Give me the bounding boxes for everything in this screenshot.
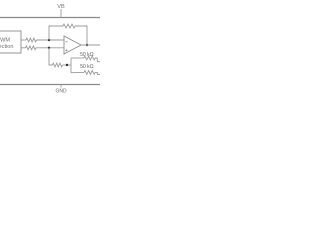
wire R4 exit jog <box>95 58 100 62</box>
wire box to R1 <box>21 39 26 41</box>
wire upper divider branch <box>71 57 84 59</box>
wire feedback to output <box>75 26 87 45</box>
svg-text:PWM: PWM <box>0 37 10 43</box>
resistor Rf feedback <box>63 24 75 28</box>
wire R5 exit jog <box>95 72 100 74</box>
resistor R5 50 kOhm <box>84 71 95 75</box>
block PWM injection <box>0 31 21 53</box>
resistor R4 50 kOhm <box>84 56 95 60</box>
svg-text:50 kΩ: 50 kΩ <box>80 64 94 70</box>
resistor R3 <box>53 63 63 67</box>
wire GND stub <box>60 85 62 88</box>
resistor R1 <box>26 38 37 42</box>
wire lower divider branch <box>71 71 84 73</box>
wire feedback riser <box>49 26 63 40</box>
svg-text:injection: injection <box>0 44 13 50</box>
wire R3 to divider tee <box>63 64 72 66</box>
svg-text:GND: GND <box>55 89 67 95</box>
resistor R2 <box>26 46 37 50</box>
wire R2 to op-amp non-inverting input <box>36 47 64 49</box>
wire bias drop from non-inverting input <box>49 48 53 65</box>
node junction C <box>66 64 68 66</box>
wire box to R2 <box>21 47 26 49</box>
node junction A <box>48 39 50 41</box>
wire op-amp output <box>81 44 100 46</box>
svg-text:50 kΩ: 50 kΩ <box>80 52 94 58</box>
op-amp U1 <box>64 36 81 54</box>
wire R1 to op-amp inverting input <box>37 39 65 41</box>
node junction output <box>86 44 88 46</box>
node VB rail <box>0 17 100 19</box>
ground GND rail <box>0 84 100 86</box>
wire divider bracket <box>70 58 72 73</box>
node junction B <box>48 47 50 49</box>
wire VB stub <box>60 9 62 18</box>
